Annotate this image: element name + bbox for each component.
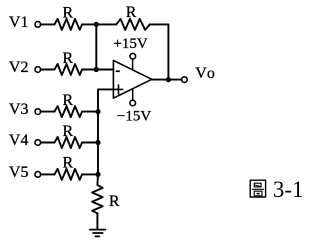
op-amp U1 [113,60,151,98]
wire R2 to node B [82,69,96,71]
resistor R4 [55,137,83,148]
svg-text:+15V: +15V [113,36,147,52]
terminal V5 [35,172,41,178]
op-amp U1 non-inverting input marker [114,85,122,94]
figure caption glyph 圖 [250,180,265,197]
wire R4 to node D [82,142,98,144]
wire node A to feedback resistor [96,23,116,25]
node B junction [94,67,99,72]
resistor R3 [55,106,83,117]
terminal +15V supply [130,53,136,59]
node C junction (non-inverting bus) [95,109,100,114]
svg-text:R: R [63,155,74,172]
svg-text:R: R [63,5,74,22]
terminal V3 [35,109,41,115]
resistor R2 [55,64,83,75]
wire R3 to node C [82,111,98,113]
wire op-amp non-inverting input [98,89,113,111]
wire bus node A to node B [95,24,97,69]
feedback resistor R6 [116,19,150,30]
svg-text:V5: V5 [9,164,29,181]
wire op-amp output [152,79,182,81]
wire R1 to node A [82,23,96,25]
resistor R5 [55,169,83,180]
svg-text:V4: V4 [9,132,29,149]
node E junction [95,172,100,177]
terminal V4 [35,140,41,146]
svg-text:V2: V2 [9,59,29,76]
wire V1 terminal to R1 [41,23,55,25]
terminal V2 [35,67,41,73]
ground [90,230,106,237]
svg-text:R: R [63,92,74,109]
node A junction (inverting summing node) [94,22,99,27]
svg-text:V1: V1 [9,14,29,31]
terminal Vo output [182,77,188,83]
terminal -15V supply [130,100,136,106]
op-amp U1 inverting input marker [116,70,120,72]
svg-text:3-1: 3-1 [273,177,304,202]
wire node B to op-amp inverting input [96,69,113,71]
svg-text:−15V: −15V [117,109,151,125]
svg-text:R: R [63,50,74,67]
op-amp positive supply pin [132,59,134,70]
svg-text:o: o [207,65,215,82]
node output junction [166,77,171,82]
wire bus node C to node E [97,112,99,175]
wire ground resistor to ground [96,213,98,229]
svg-text:R: R [126,4,137,21]
resistor R1 [55,19,83,30]
wire R6 to feedback corner [150,23,169,25]
svg-text:V3: V3 [9,101,29,118]
terminal V1 [35,22,41,28]
svg-text:R: R [109,193,120,210]
ground resistor R7 [92,185,103,213]
svg-text:V: V [195,65,207,82]
wire V2 terminal to R2 [41,69,55,71]
svg-text:R: R [63,123,74,140]
wire R5 to node E [82,173,98,175]
node D junction [95,140,100,145]
wire feedback vertical to output node [167,24,169,79]
wire V5 terminal to R5 [41,173,55,175]
op-amp negative supply pin [132,89,134,100]
wire V3 terminal to R3 [41,111,55,113]
wire node E to ground resistor [96,174,99,185]
wire V4 terminal to R4 [41,142,55,144]
